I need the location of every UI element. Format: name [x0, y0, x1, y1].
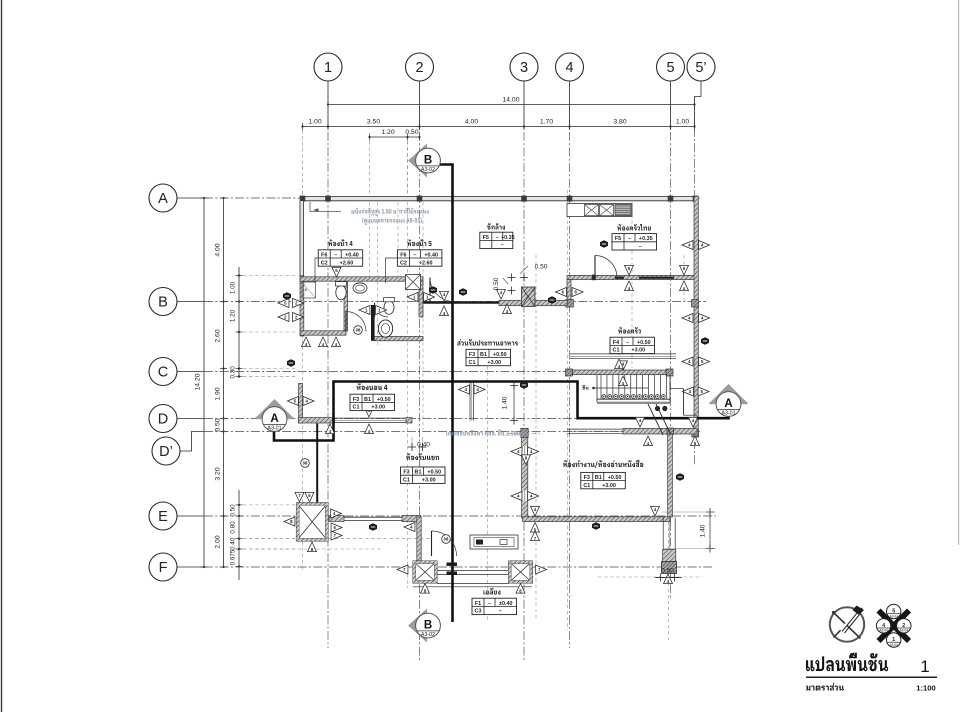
svg-text:1.20: 1.20 — [230, 309, 237, 322]
column D' grid3 — [521, 428, 528, 437]
svg-text:1.90: 1.90 — [215, 387, 222, 400]
porch edge lines — [413, 584, 532, 587]
wall bath4 south — [300, 331, 346, 335]
svg-text:3.20: 3.20 — [215, 467, 222, 480]
svg-text:A3-02: A3-02 — [421, 167, 435, 173]
svg-text:B1: B1 — [480, 352, 487, 358]
toilet bath4 — [336, 282, 347, 300]
leader bath5 — [386, 258, 398, 283]
room pantry label — [610, 327, 655, 354]
wall bath divider — [344, 281, 348, 331]
left segment dimensions — [215, 197, 228, 568]
grid line 4 — [569, 85, 571, 648]
svg-text:F4: F4 — [613, 340, 619, 346]
grid bubble F — [149, 553, 204, 581]
svg-text:1: 1 — [920, 657, 929, 676]
svg-text:1.40: 1.40 — [700, 524, 707, 537]
svg-text:B1: B1 — [415, 470, 422, 476]
room bedroom4 label — [350, 383, 395, 411]
kitchen counter — [567, 204, 632, 217]
grid line B — [204, 301, 706, 303]
grid bubble E — [149, 502, 204, 530]
svg-text:B: B — [424, 620, 432, 632]
grid bubble A — [149, 184, 204, 212]
svg-text:F: F — [159, 560, 168, 576]
dimension 0.50 right bottom — [655, 568, 682, 582]
railing porch F — [437, 570, 509, 574]
door dining north — [430, 278, 454, 302]
svg-text:+3.00: +3.00 — [631, 348, 645, 354]
grid line E — [204, 515, 716, 517]
section marker A right — [710, 384, 748, 417]
grid bubble C — [149, 358, 204, 386]
svg-text:B1: B1 — [364, 397, 371, 403]
svg-text:08: 08 — [303, 461, 308, 466]
grid line 3 — [523, 85, 525, 662]
door circle symbols — [301, 326, 451, 544]
wall E mid — [402, 515, 421, 521]
wall kitchen south — [567, 275, 697, 281]
svg-text:A3-04: A3-04 — [900, 629, 909, 633]
left extension line building edge — [302, 130, 304, 196]
column porch F grid2 — [413, 561, 437, 583]
svg-text:F3: F3 — [403, 470, 409, 476]
svg-text:A3-02: A3-02 — [421, 632, 435, 638]
svg-text:0.50: 0.50 — [661, 568, 674, 575]
entry bench — [470, 535, 518, 549]
svg-text:3.80: 3.80 — [613, 119, 626, 126]
svg-text:–: – — [499, 609, 502, 615]
left sub dimensions — [230, 267, 243, 580]
svg-text:0.50: 0.50 — [405, 129, 418, 136]
north arrow icon — [830, 606, 864, 642]
svg-text:–: – — [628, 236, 631, 242]
svg-text:C1: C1 — [583, 483, 590, 489]
svg-text:A3-04: A3-04 — [889, 614, 898, 618]
grid line D' — [204, 431, 700, 433]
stair up label — [582, 385, 588, 390]
grid bubble D' — [152, 432, 204, 466]
window and door tag triangles — [278, 240, 710, 593]
shower bath4 — [302, 282, 316, 298]
grid line 1 — [327, 85, 329, 648]
svg-text:08: 08 — [356, 328, 361, 333]
svg-text:1.00: 1.00 — [308, 119, 321, 126]
svg-text:1.40: 1.40 — [502, 396, 509, 409]
room bath5 label — [397, 239, 442, 266]
svg-text:A3-01: A3-01 — [721, 411, 735, 417]
wall bedroom south D — [299, 418, 413, 423]
window right tall — [663, 518, 676, 562]
svg-text:–: – — [334, 252, 337, 258]
svg-text:C1: C1 — [613, 348, 620, 354]
room laundry label — [480, 223, 515, 249]
wall E right — [523, 517, 671, 522]
svg-text:+2.60: +2.60 — [419, 260, 433, 266]
key plan icon — [876, 604, 911, 647]
section marker A left — [256, 399, 294, 432]
room study label — [563, 460, 643, 489]
vent hexagon symbols — [283, 240, 709, 531]
wall right 5' — [692, 196, 699, 437]
page left border — [1, 0, 3, 712]
leader bath4 — [315, 258, 318, 283]
section line A-A — [274, 382, 729, 441]
svg-text:A: A — [724, 398, 732, 410]
left extension lines — [243, 276, 298, 550]
wall E left porch — [329, 516, 344, 522]
wall bath north — [300, 277, 423, 281]
svg-text:A: A — [270, 413, 278, 425]
entry step marks — [447, 563, 458, 575]
svg-text:0.675: 0.675 — [230, 549, 237, 565]
svg-text:B: B — [158, 295, 168, 311]
room dining label — [457, 339, 518, 366]
grid bubble 5 — [657, 53, 685, 129]
section line B-B — [440, 165, 453, 623]
terrace edge line — [316, 424, 318, 503]
door entry living — [432, 531, 457, 556]
svg-text:+0.35: +0.35 — [639, 236, 653, 242]
window frame symbol grid2 — [406, 275, 421, 290]
grid line C — [204, 371, 628, 373]
svg-text:D: D — [158, 412, 168, 428]
wall left B-C — [300, 276, 304, 336]
toilet bath5 — [384, 298, 395, 315]
svg-text:0.40: 0.40 — [230, 537, 237, 550]
room bath4 label — [318, 239, 363, 266]
svg-text:A: A — [158, 191, 168, 207]
wall left louver upper — [300, 201, 304, 277]
title block — [806, 653, 937, 693]
grid line F — [204, 566, 712, 568]
svg-text:0.50: 0.50 — [493, 277, 500, 290]
grid line A — [204, 197, 700, 199]
column porch F grid3 — [509, 561, 533, 583]
column F right small — [662, 562, 677, 574]
svg-text:1.00: 1.00 — [676, 119, 689, 126]
svg-text:–: – — [413, 252, 416, 258]
svg-text:F6: F6 — [400, 252, 406, 258]
svg-text:3.50: 3.50 — [367, 119, 380, 126]
grid line 5 — [670, 85, 672, 600]
svg-text:1.00: 1.00 — [230, 281, 237, 294]
svg-text:+3.00: +3.00 — [371, 405, 385, 411]
svg-text:2.60: 2.60 — [215, 329, 222, 342]
svg-text:0.30: 0.30 — [230, 366, 237, 379]
construction lines horizontal — [243, 539, 702, 577]
svg-text:+0.50: +0.50 — [608, 475, 622, 481]
svg-text:A3-04: A3-04 — [879, 629, 888, 633]
svg-text:C1: C1 — [353, 405, 360, 411]
svg-text:+3.00: +3.00 — [602, 483, 616, 489]
grid bubble 1 — [314, 53, 342, 129]
svg-text:F3: F3 — [469, 352, 475, 358]
svg-text:F6: F6 — [321, 252, 327, 258]
window pantry south — [570, 354, 676, 359]
svg-text:1: 1 — [324, 60, 332, 76]
column grid3 B — [522, 287, 536, 307]
wall B row hatched — [499, 300, 567, 305]
svg-text:C3: C3 — [475, 609, 482, 615]
grid line D — [204, 418, 700, 420]
svg-text:+0.50: +0.50 — [377, 397, 391, 403]
sink bath4 — [353, 283, 367, 293]
svg-text:F3: F3 — [353, 397, 359, 403]
svg-text:–: – — [501, 243, 504, 249]
svg-text:+0.50: +0.50 — [427, 470, 441, 476]
wall kitchen west stub — [566, 280, 574, 307]
svg-text:4.00: 4.00 — [465, 119, 478, 126]
dimension 0.50 pair near column — [493, 264, 548, 295]
svg-text:ฝ: ฝ — [305, 287, 308, 292]
room living label — [401, 453, 446, 483]
wall D' right hatched — [623, 428, 697, 435]
grid bubble 2 — [406, 53, 434, 129]
svg-text:A3-01: A3-01 — [267, 426, 281, 432]
svg-text:14.00: 14.00 — [502, 97, 519, 104]
svg-text:C2: C2 — [321, 260, 328, 266]
top segment dimensions — [301, 119, 695, 131]
grid line 2 — [419, 85, 421, 660]
svg-text:0.50: 0.50 — [230, 504, 237, 517]
grid line 5' — [694, 97, 696, 467]
window living east gaps — [523, 446, 527, 501]
svg-text:+0.50: +0.50 — [637, 340, 651, 346]
room porch label — [472, 588, 517, 615]
svg-text:0.50: 0.50 — [535, 264, 548, 271]
svg-text:2.00: 2.00 — [215, 535, 222, 548]
door bath4 — [346, 312, 366, 332]
sink bath5 — [378, 320, 392, 337]
wall bedroom west — [299, 383, 303, 423]
svg-text:B1: B1 — [595, 475, 602, 481]
stair — [592, 375, 697, 435]
grid bubble 4 — [556, 53, 584, 129]
wall study east — [668, 434, 673, 517]
wall B row black counter — [421, 301, 499, 304]
grid bubble B — [149, 288, 204, 316]
door kitchen — [595, 256, 617, 278]
svg-text:F3: F3 — [584, 475, 590, 481]
svg-text:–: – — [496, 235, 499, 241]
svg-text:F5: F5 — [615, 236, 621, 242]
svg-text:–: – — [488, 601, 491, 607]
dimension 1.40 right — [663, 508, 716, 553]
svg-text:+0.50: +0.50 — [493, 352, 507, 358]
page right border — [958, 0, 960, 545]
svg-text:+0.40: +0.40 — [345, 252, 359, 258]
wall living east — [522, 437, 528, 518]
top sub dimensions 1.20 0.50 — [368, 129, 420, 194]
svg-text:–: – — [626, 340, 629, 346]
section marker B top — [408, 144, 440, 178]
svg-text:C1: C1 — [403, 478, 410, 484]
svg-text:08: 08 — [444, 537, 449, 542]
svg-text:C2: C2 — [400, 260, 407, 266]
svg-text:4.00: 4.00 — [215, 243, 222, 256]
svg-text:1.20: 1.20 — [381, 129, 394, 136]
svg-text:B: B — [424, 155, 432, 167]
svg-text:F1: F1 — [475, 601, 481, 607]
svg-text:+3.00: +3.00 — [422, 478, 436, 484]
overall dimension 14.20 — [195, 197, 208, 568]
svg-text:C: C — [158, 365, 168, 381]
svg-text:5’: 5’ — [695, 60, 706, 76]
svg-text:F5: F5 — [483, 235, 489, 241]
svg-text:A3-04: A3-04 — [889, 643, 898, 647]
section marker B bottom — [408, 609, 440, 643]
svg-text:+0.40: +0.40 — [424, 252, 438, 258]
svg-text:±0.40: ±0.40 — [499, 601, 512, 607]
wall bath5 west — [419, 281, 423, 317]
svg-text:D’: D’ — [159, 444, 173, 460]
dimension 1.40 bedroom — [502, 382, 519, 425]
svg-text:5: 5 — [666, 60, 674, 76]
svg-text:1:100: 1:100 — [916, 684, 935, 693]
svg-text:14.20: 14.20 — [195, 373, 202, 390]
svg-text:1.70: 1.70 — [540, 119, 553, 126]
svg-text:0.50: 0.50 — [215, 418, 222, 431]
grid bubble 3 — [510, 53, 538, 129]
railing porch top — [344, 517, 402, 520]
grid bubble 5' — [687, 53, 715, 129]
svg-text:4: 4 — [565, 60, 573, 76]
wall top louver A — [300, 196, 699, 202]
annotation roof edge — [446, 430, 540, 436]
svg-text:E: E — [158, 509, 168, 525]
svg-text:+0.35: +0.35 — [501, 235, 515, 241]
overall dimension 14.00 — [327, 97, 696, 109]
wall porch vertical — [417, 517, 421, 561]
svg-text:0.80: 0.80 — [230, 521, 237, 534]
svg-text:0.40: 0.40 — [417, 442, 430, 449]
wall black bath5 — [371, 305, 375, 341]
svg-text:2: 2 — [415, 60, 423, 76]
wall D' right window — [567, 429, 623, 433]
annotation louver wall — [310, 202, 429, 225]
column porch left — [296, 503, 328, 541]
svg-text:3: 3 — [520, 60, 528, 76]
svg-text:C1: C1 — [469, 360, 476, 366]
door bath5 small — [374, 303, 388, 317]
svg-text:–: – — [639, 244, 642, 250]
construction lines vertical — [303, 141, 685, 640]
window bedroom east — [470, 382, 474, 421]
grid bubble D — [149, 405, 204, 433]
wall stair north — [566, 369, 674, 376]
wall bath5 south — [374, 336, 423, 340]
room thai kitchen label — [612, 224, 657, 250]
svg-text:+2.60: +2.60 — [340, 260, 354, 266]
dimension 0.40 — [408, 437, 430, 451]
svg-text:+3.00: +3.00 — [487, 360, 501, 366]
